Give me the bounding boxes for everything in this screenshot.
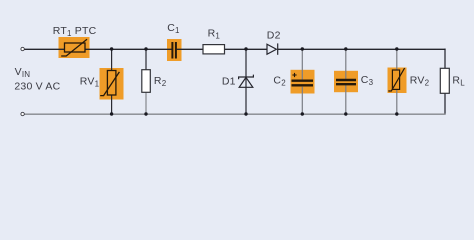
varistor RV1 highlight box xyxy=(100,68,124,100)
node junction RV1 top xyxy=(110,47,113,50)
node junction C2 top xyxy=(301,47,304,50)
svg-text:D1: D1 xyxy=(222,76,236,88)
capacitor C1 plates xyxy=(172,42,176,59)
capacitor C2 highlight box xyxy=(291,70,315,94)
wire RV2 branch upper xyxy=(396,49,398,70)
terminal input top xyxy=(21,47,24,50)
capacitor C1 highlight box xyxy=(167,39,182,61)
capacitor C2 plus sign xyxy=(292,73,296,77)
node junction R2 bottom xyxy=(144,112,147,115)
terminal input bottom xyxy=(21,112,24,115)
resistor R1 xyxy=(203,45,225,54)
thermistor RT1 highlight box xyxy=(59,37,90,58)
wire R2 branch upper xyxy=(145,49,147,70)
wire top rail: D2 to right corner xyxy=(278,48,446,50)
wire top rail: R1 to D2 xyxy=(225,48,268,50)
wire C3 branch upper xyxy=(345,49,347,79)
wire right edge down to RL xyxy=(444,49,446,69)
node junction D1 top xyxy=(244,47,247,50)
resistor RL xyxy=(440,68,449,93)
wire RL to bottom rail xyxy=(444,93,446,114)
node junction C3 top xyxy=(344,47,347,50)
capacitor C2 plates (polarized) xyxy=(292,81,314,86)
varistor RV1 symbol xyxy=(100,71,119,96)
varistor RV2 symbol xyxy=(388,68,404,91)
svg-text:230 V AC: 230 V AC xyxy=(14,80,60,92)
svg-text:RT1 PTC: RT1 PTC xyxy=(53,25,97,38)
node junction RV2 top xyxy=(395,47,398,50)
capacitor C3 highlight box xyxy=(334,71,358,92)
wire C2 branch lower xyxy=(301,87,303,114)
zener diode D1 xyxy=(239,75,254,88)
node junction C3 bottom xyxy=(344,112,347,115)
wire C3 branch lower xyxy=(345,85,347,115)
resistor R2 xyxy=(142,70,151,93)
varistor RV2 highlight box xyxy=(388,68,407,94)
node junction RV1 bottom xyxy=(110,112,113,115)
wire R2 branch lower xyxy=(145,92,147,114)
wire RV2 branch lower xyxy=(396,90,398,115)
wire bottom rail xyxy=(24,113,445,115)
wire RV1 branch upper xyxy=(111,49,113,71)
wire RV1 branch lower xyxy=(111,95,113,114)
node junction C2 bottom xyxy=(301,112,304,115)
node junction RV2 bottom xyxy=(395,112,398,115)
thermistor RT1 symbol xyxy=(61,39,87,56)
node junction R2 top xyxy=(144,47,147,50)
wire top rail: RT1 to C1 xyxy=(85,48,172,50)
wire top rail: C1 to R1 xyxy=(177,48,203,50)
capacitor C3 plates xyxy=(336,80,356,84)
svg-text:D2: D2 xyxy=(267,29,281,41)
wire C2 branch upper xyxy=(301,49,303,79)
node junction D1 bottom xyxy=(244,112,247,115)
diode D2 xyxy=(267,43,278,54)
wire D1 branch xyxy=(245,49,247,114)
wire top rail: terminal to RT1 xyxy=(24,48,64,50)
